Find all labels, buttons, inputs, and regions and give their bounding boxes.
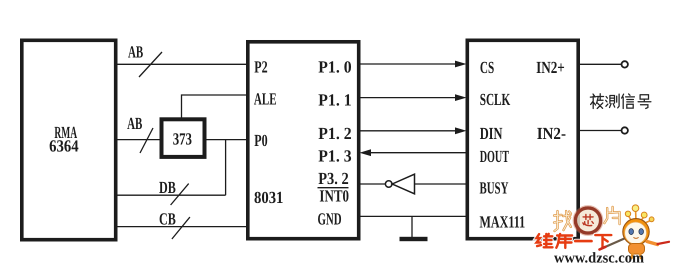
svg-text:IN2+: IN2+	[536, 58, 565, 77]
svg-text:P1. 0: P1. 0	[318, 58, 351, 77]
mascot antenna balls	[625, 205, 654, 222]
glyph 信	[622, 94, 635, 109]
arrowhead into SCLK	[455, 94, 467, 101]
svg-text:DB: DB	[159, 178, 176, 197]
inverter U5 triangle	[392, 174, 414, 194]
watermark magnifier text 找	[554, 211, 571, 231]
svg-text:CB: CB	[159, 210, 176, 229]
watermark magnifier circle with 芯	[575, 208, 600, 233]
svg-text:P1. 1: P1. 1	[318, 91, 351, 110]
wire AB bus RMA to 373	[117, 139, 162, 141]
wire P1.0 to CS	[359, 63, 456, 65]
wire DB data bus from RMA	[117, 194, 226, 196]
svg-text:DIN: DIN	[480, 124, 503, 143]
wire IN2+ to terminal	[579, 63, 621, 65]
svg-text:8031: 8031	[254, 188, 283, 207]
ground symbol	[400, 237, 428, 241]
arrowhead into P1.3	[360, 149, 372, 156]
svg-text:P3. 2: P3. 2	[318, 169, 349, 188]
svg-text:SCLK: SCLK	[480, 90, 511, 109]
label measured-signal 被测信号 hand-drawn glyphs	[590, 94, 651, 109]
svg-text:P0: P0	[254, 131, 267, 150]
terminal circle IN2-	[622, 127, 628, 133]
svg-text:INT0: INT0	[319, 187, 349, 206]
svg-text:www.dzsc.com: www.dzsc.com	[554, 250, 644, 264]
wire CB control bus RMA to 8031	[117, 226, 247, 228]
arrowhead into DIN	[455, 127, 467, 134]
mascot right arm with pointer	[647, 242, 658, 245]
mascot mouth	[633, 237, 638, 238]
glyph 号	[638, 95, 651, 109]
arrowhead into CS	[455, 61, 467, 68]
svg-text:MAX111: MAX111	[480, 213, 526, 232]
watermark magnifier text 片	[604, 207, 619, 224]
IC U1 RMA 6364 memory box	[22, 40, 116, 239]
wire AB address bus RMA to 8031 P2	[117, 63, 247, 65]
svg-text:ALE: ALE	[254, 90, 277, 109]
wire ground stub	[411, 216, 413, 237]
svg-text:373: 373	[173, 129, 192, 148]
wire inverter output to INT0	[359, 183, 385, 185]
IC U2 8031 microcontroller box	[248, 42, 359, 239]
svg-text:BUSY: BUSY	[480, 179, 509, 198]
bus slash on AB lower bus	[140, 128, 153, 153]
wire P1.1 to SCLK	[359, 97, 456, 99]
wire GND net 8031 to MAX111	[359, 215, 468, 217]
svg-text:P1. 2: P1. 2	[318, 124, 351, 143]
svg-text:DOUT: DOUT	[480, 147, 510, 166]
mascot head	[623, 219, 649, 245]
svg-text:P2: P2	[254, 58, 267, 77]
wire ALE from 8031 to 373 latch	[182, 95, 248, 119]
svg-text:6364: 6364	[49, 136, 79, 155]
svg-text:GND: GND	[318, 210, 342, 229]
mascot legs	[632, 254, 642, 258]
mascot body	[629, 244, 645, 255]
terminal circle IN2+	[622, 61, 628, 67]
svg-text:CS: CS	[480, 58, 494, 77]
wire DOUT to P1.3	[370, 152, 468, 154]
glyph 测	[606, 94, 619, 108]
svg-text:IN2-: IN2-	[537, 124, 567, 143]
inverter bubble	[385, 181, 392, 188]
glyph 被	[590, 94, 603, 109]
mascot eyes	[629, 229, 634, 235]
wire junction vertical P0 to DB	[225, 140, 227, 196]
IC U4 latch 373 box	[162, 119, 205, 157]
bus slash on AB bus	[139, 52, 162, 77]
watermark mascot pen	[601, 237, 630, 250]
watermark text 维库一下 red	[537, 234, 612, 248]
wire P1.2 to DIN	[359, 130, 456, 132]
svg-text:AB: AB	[128, 42, 143, 61]
bus slash on DB	[171, 184, 189, 205]
svg-text:P1. 3: P1. 3	[318, 147, 351, 166]
bus slash on CB	[172, 217, 190, 239]
IC U3 MAX111 ADC box	[467, 40, 578, 238]
wire 373 to 8031 P0	[204, 139, 247, 141]
svg-text:AB: AB	[127, 114, 142, 133]
wire BUSY to inverter input	[415, 183, 469, 185]
wire IN2- to terminal	[579, 130, 621, 132]
watermark mascot antennas	[629, 211, 651, 225]
bar between P3.2 and INT0	[318, 187, 349, 189]
